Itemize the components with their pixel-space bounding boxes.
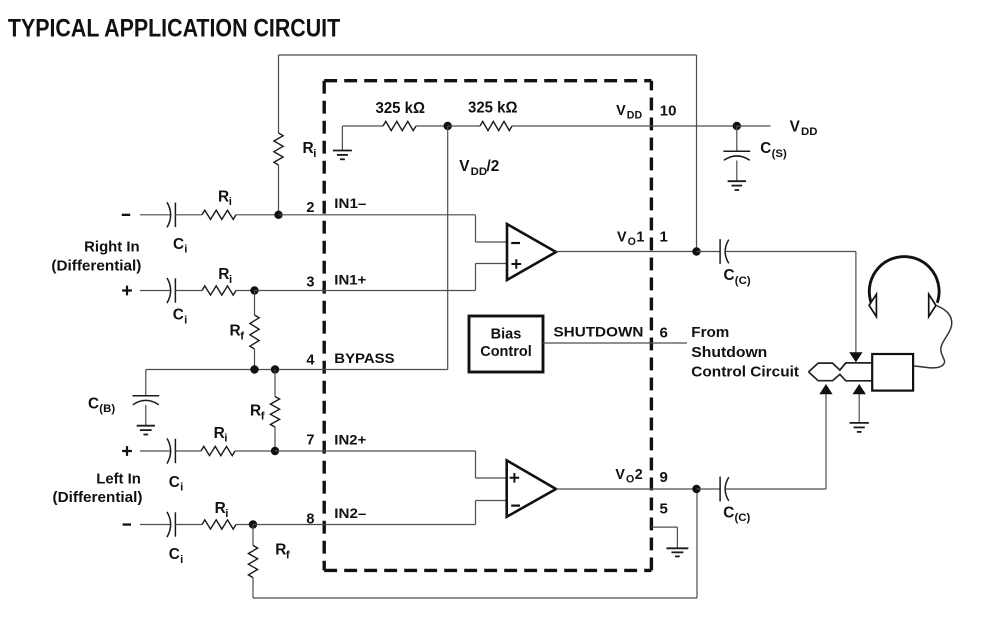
svg-text:C: C — [169, 546, 180, 563]
resistor 325 kOhm left — [383, 121, 416, 130]
ground for C(S) — [728, 180, 746, 182]
node IN1+ junction — [250, 286, 258, 294]
node VDD/2 junction — [444, 122, 452, 130]
resistor Ri (IN1+) — [202, 286, 236, 295]
svg-text:V: V — [616, 103, 626, 119]
headphone jack plug — [809, 363, 873, 372]
svg-text:f: f — [261, 410, 265, 422]
resistor Rf (BYPASS to IN2+) — [274, 370, 276, 397]
minus symbol in U1 — [511, 242, 520, 244]
wire IN2+ into IC to op-amp step — [275, 450, 476, 452]
svg-text:From: From — [691, 325, 729, 341]
ground for C(B) — [137, 425, 155, 427]
wire VO1 node to C(C) — [697, 251, 721, 253]
resistor Rf (IN1+ to BYPASS) — [254, 291, 256, 316]
svg-text:V: V — [617, 229, 627, 245]
svg-text:6: 6 — [660, 324, 668, 341]
op-amp U2 input step wires — [475, 451, 477, 478]
wire Ri to IN2- node — [236, 524, 253, 526]
wire BYPASS row — [146, 369, 448, 371]
wire Ri to IN2+ node — [235, 450, 275, 452]
svg-text:(C): (C) — [735, 512, 751, 524]
wire IN1- into IC to op-amp step — [279, 214, 476, 216]
wire IN2+ input lead — [140, 450, 170, 452]
svg-text:i: i — [180, 482, 183, 494]
svg-text:i: i — [229, 196, 232, 208]
headphone headband — [869, 257, 939, 303]
svg-text:i: i — [224, 433, 227, 445]
svg-text:Shutdown: Shutdown — [691, 345, 767, 361]
headphone left earpiece — [869, 294, 876, 316]
resistor Ri (IN1-) — [202, 210, 236, 219]
node IN2- junction — [249, 520, 257, 528]
wire VDD row left segment — [342, 125, 383, 127]
svg-text:/2: /2 — [487, 158, 500, 175]
minus sign IN2- input — [123, 523, 131, 525]
wire C(C) to headphone jack ring — [726, 251, 856, 253]
op-amp U1 (top) — [507, 224, 556, 280]
svg-text:IN1+: IN1+ — [334, 272, 366, 288]
svg-text:R: R — [215, 500, 226, 517]
svg-text:8: 8 — [306, 511, 314, 527]
svg-text:DD: DD — [627, 110, 643, 122]
ground for pin 5 — [666, 547, 688, 549]
svg-text:Right In: Right In — [84, 240, 139, 256]
plus sign IN1+ input — [122, 286, 132, 296]
wire Ci to Ri (IN2-) — [175, 524, 202, 526]
wire Ci to Ri (IN1-) — [175, 214, 202, 216]
svg-text:C: C — [723, 504, 734, 521]
minus symbol in U2 — [511, 505, 520, 507]
wire IN2- into IC to op-amp step — [253, 524, 476, 526]
resistor Ri (IN2+) — [201, 446, 235, 455]
svg-text:Control: Control — [480, 344, 532, 360]
svg-text:i: i — [313, 148, 316, 160]
svg-text:(S): (S) — [772, 148, 787, 160]
svg-text:Left In: Left In — [96, 472, 141, 488]
svg-text:325 kΩ: 325 kΩ — [468, 100, 518, 117]
minus sign IN1- input — [122, 214, 130, 216]
resistor Rf (IN2- to bottom feedback wire) — [252, 525, 254, 546]
svg-text:2: 2 — [306, 200, 314, 216]
node VO1 junction — [692, 247, 700, 255]
resistor Ri (IN2-) — [202, 520, 236, 529]
headphone jack body — [872, 354, 913, 391]
Bias Control box — [469, 316, 543, 372]
wire VO2 node to C(C) — [697, 488, 721, 490]
IC boundary dashed box — [324, 81, 651, 571]
svg-text:C: C — [760, 140, 771, 157]
svg-text:5: 5 — [660, 501, 668, 518]
capacitor C(S) — [736, 126, 738, 151]
svg-text:R: R — [218, 266, 229, 283]
svg-text:4: 4 — [306, 353, 314, 369]
svg-text:R: R — [250, 403, 261, 420]
wire SHUTDOWN — [543, 342, 687, 344]
node IN2+ junction — [271, 447, 279, 455]
ground for jack sleeve — [850, 422, 869, 424]
headphone cable — [914, 305, 952, 367]
capacitor Ci (IN1-) — [167, 202, 171, 227]
svg-text:DD: DD — [471, 166, 487, 178]
capacitor C(C) top — [719, 239, 721, 264]
plus symbol in U2 — [510, 473, 520, 483]
svg-text:O: O — [626, 473, 634, 485]
svg-text:1: 1 — [636, 229, 644, 245]
wire vertical top wire down to VO1 node — [696, 55, 698, 252]
arrow up to jack tip — [825, 394, 827, 489]
svg-text:2: 2 — [635, 467, 643, 483]
svg-text:7: 7 — [306, 433, 314, 449]
node BYPASS junction right — [271, 365, 279, 373]
svg-text:V: V — [459, 158, 470, 175]
node BYPASS junction left — [250, 365, 258, 373]
wire Ci to Ri (IN1+) — [175, 290, 202, 292]
svg-text:f: f — [286, 550, 290, 562]
wire top feedback (VO1 to Ri) — [279, 54, 697, 56]
capacitor C(C) bottom — [719, 477, 721, 502]
svg-text:i: i — [225, 508, 228, 520]
svg-text:R: R — [303, 140, 314, 157]
svg-text:IN2+: IN2+ — [334, 432, 366, 448]
wire IN1- input lead — [140, 214, 170, 216]
ground for 325k resistor — [341, 126, 343, 150]
plus sign IN2+ input — [122, 446, 132, 456]
wire VDD row to pin 10 and C(S) node — [512, 125, 737, 127]
wire C(C) to headphone jack tip — [726, 488, 827, 490]
svg-text:10: 10 — [660, 103, 677, 120]
capacitor C(B) — [145, 370, 147, 396]
capacitor Ci (IN2+) — [167, 438, 171, 463]
wire VO1 output — [556, 251, 697, 253]
headphone right earpiece — [929, 294, 936, 316]
svg-text:(B): (B) — [99, 403, 115, 415]
svg-text:R: R — [230, 323, 241, 340]
wire between 325k resistors — [416, 125, 448, 127]
svg-text:C: C — [169, 474, 180, 491]
op-amp U1 input step wires — [475, 215, 477, 242]
svg-text:(Differential): (Differential) — [53, 490, 143, 506]
svg-text:Bias: Bias — [491, 327, 522, 343]
svg-text:i: i — [184, 244, 187, 256]
svg-text:BYPASS: BYPASS — [334, 351, 394, 367]
wire Ci to Ri (IN2+) — [175, 450, 201, 452]
svg-text:R: R — [218, 188, 229, 205]
resistor 325 kOhm right — [448, 125, 480, 127]
wire to external VDD label — [737, 125, 771, 127]
svg-text:i: i — [180, 554, 183, 566]
wire vertical from top wire down to feedback resistor Ri — [278, 55, 280, 133]
pin 5 ground stub — [651, 526, 677, 528]
svg-text:SHUTDOWN: SHUTDOWN — [554, 324, 644, 340]
node VO2 junction — [692, 485, 700, 493]
svg-text:C: C — [173, 236, 184, 253]
svg-text:(Differential): (Differential) — [51, 258, 141, 274]
svg-text:C: C — [173, 307, 184, 324]
arrow up to jack sleeve (ground) — [858, 394, 860, 422]
svg-text:f: f — [240, 330, 244, 342]
plus symbol in U1 — [512, 259, 522, 269]
wire VDD/2 vertical to BYPASS — [447, 126, 449, 370]
svg-text:V: V — [790, 118, 801, 135]
svg-text:9: 9 — [660, 469, 668, 486]
svg-text:R: R — [214, 425, 225, 442]
capacitor Ci (IN2-) — [167, 512, 171, 537]
node C(S) junction — [733, 122, 741, 130]
arrow down to jack ring — [855, 252, 857, 353]
wire VO2 output — [556, 488, 697, 490]
svg-text:325 kΩ: 325 kΩ — [376, 100, 426, 117]
wire IN2- input lead — [140, 524, 170, 526]
svg-text:i: i — [229, 274, 232, 286]
svg-text:i: i — [184, 314, 187, 326]
svg-text:IN1–: IN1– — [334, 196, 366, 212]
wire Ri to IN1+ node — [236, 290, 255, 292]
resistor Ri feedback (vertical) — [274, 133, 283, 165]
svg-text:DD: DD — [801, 126, 817, 138]
wire vertical bottom feedback up to VO2 node — [696, 489, 698, 598]
svg-text:C: C — [88, 395, 99, 412]
svg-text:O: O — [628, 236, 636, 248]
wire IN1+ into IC to op-amp step — [255, 290, 476, 292]
svg-text:Control Circuit: Control Circuit — [691, 365, 799, 381]
svg-text:C: C — [724, 267, 735, 284]
svg-text:R: R — [275, 542, 286, 559]
wire Ri feedback to IN1- node — [278, 165, 280, 215]
node IN1- junction — [274, 211, 282, 219]
op-amp U2 (bottom) — [507, 460, 556, 516]
wire Ri to IN1- node — [236, 214, 279, 216]
svg-text:(C): (C) — [735, 275, 751, 287]
wire IN1+ input lead — [140, 290, 170, 292]
wire bottom feedback — [253, 597, 697, 599]
svg-text:1: 1 — [660, 228, 668, 245]
svg-text:IN2–: IN2– — [334, 506, 366, 522]
svg-text:3: 3 — [306, 275, 314, 291]
capacitor Ci (IN1+) — [167, 278, 171, 303]
svg-text:V: V — [615, 467, 625, 483]
svg-text:TYPICAL APPLICATION CIRCUIT: TYPICAL APPLICATION CIRCUIT — [8, 15, 340, 43]
